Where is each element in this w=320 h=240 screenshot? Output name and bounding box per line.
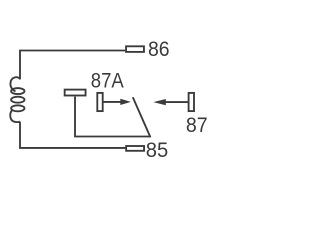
wire: 87 contact arrow shaft (165, 101, 188, 103)
wire: 87A contact arrow shaft (104, 101, 122, 103)
terminal pin 87 (189, 93, 194, 111)
wire: common stem and switch bottom rail (75, 97, 151, 137)
coil L1 loop 3 (11, 105, 24, 111)
svg-text:85: 85 (146, 138, 169, 162)
coil L1 bottom hook (10, 110, 20, 122)
coil L1 top hook (10, 77, 20, 91)
terminal pin 87A (97, 93, 102, 111)
svg-text:87: 87 (186, 113, 208, 137)
arrowhead: 87 normally-open contact (153, 99, 166, 105)
terminal pin 86 (126, 46, 144, 52)
wire: bottom run from coil to pin 85 terminal (20, 122, 125, 148)
switch arm (movable contact blade) (133, 97, 151, 137)
coil L1 loop 1 (11, 88, 24, 94)
wire: top run from coil to pin 86 terminal (20, 51, 125, 80)
svg-text:86: 86 (148, 37, 170, 61)
arrowhead: 87A normally-closed contact (120, 99, 131, 105)
terminal pin 30 (common, flat with stem) (65, 90, 86, 96)
terminal pin 85 (126, 146, 144, 151)
svg-text:87A: 87A (91, 69, 125, 93)
coil L1 loop 2 (11, 97, 24, 103)
